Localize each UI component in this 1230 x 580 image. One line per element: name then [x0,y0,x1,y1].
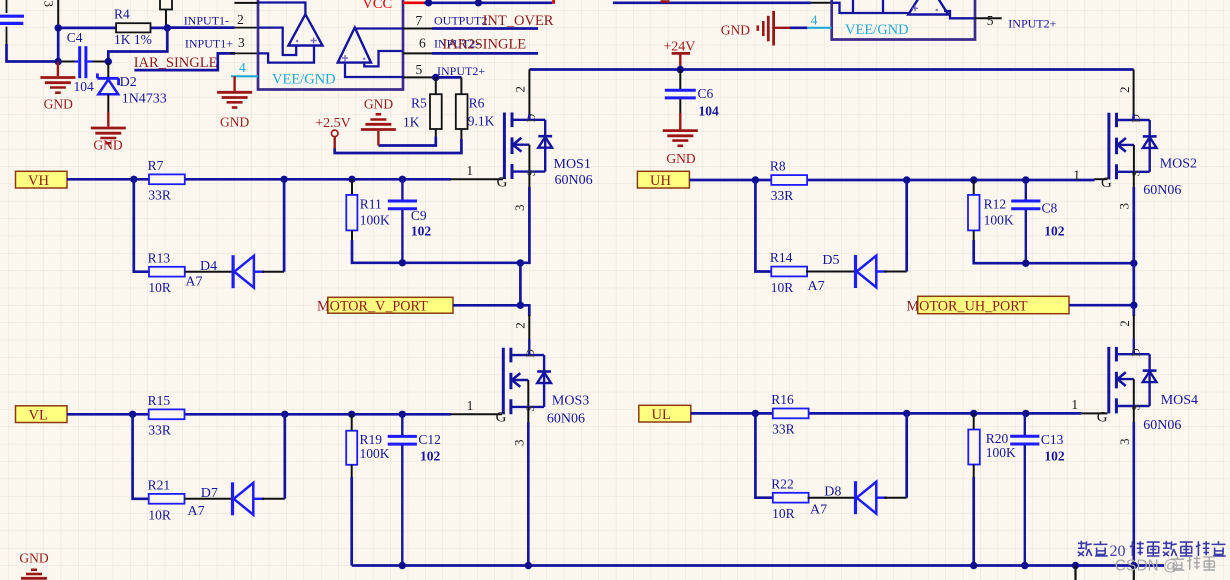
junction mini-rail C8 [1022,260,1029,267]
wire VCC rising stub [552,0,555,4]
svg-text:33R: 33R [771,188,794,203]
svg-text:R5: R5 [411,96,427,111]
svg-text:10R: 10R [148,280,171,295]
wire MOS4 gate pin [1081,412,1107,414]
svg-text:C13: C13 [1041,432,1064,447]
svg-text:R11: R11 [360,197,382,212]
svg-text:1: 1 [467,398,474,413]
junction UH-R12 [970,176,977,183]
wire D8 up to UL row [884,497,907,499]
op-amp U2 component box [832,0,975,40]
junction on VCC wire 2 [475,0,482,7]
wire VCC net to U2 [613,1,811,4]
wire MOS3 gate pin [451,413,502,415]
pin 5 stub [403,76,432,78]
junction UL-D8 [903,410,910,417]
wire R14 to D5 [806,271,856,273]
svg-text:3: 3 [1117,203,1132,210]
svg-text:D4: D4 [200,259,217,274]
svg-text:4: 4 [239,60,246,75]
wire IAR2SINGLE net [432,52,538,55]
svg-text:3: 3 [238,35,245,50]
resistor R11 [351,179,353,195]
svg-text:VH: VH [28,173,49,189]
svg-text:A7: A7 [188,504,205,519]
junction rail C12 [399,562,406,569]
svg-text:+24V: +24V [663,40,695,55]
svg-text:A7: A7 [810,503,827,518]
wire to MOTOR_V_PORT node [519,263,522,306]
svg-text:GND: GND [721,23,750,38]
svg-text:33R: 33R [148,423,171,438]
op-amp U1B triangle [338,28,371,63]
svg-text:R16: R16 [771,392,794,407]
svg-text:3: 3 [512,205,527,212]
pin 6 stub [403,52,432,54]
wire node down to MOS4 drain [1132,305,1135,316]
svg-text:1K: 1K [403,115,420,130]
wire node down to MOS3 drain [520,305,529,316]
svg-text:MOTOR_V_PORT: MOTOR_V_PORT [317,299,428,315]
svg-text:R14: R14 [770,250,793,265]
junction at C4 left [55,58,62,65]
pin 4 wire (cyan) [231,75,258,77]
wire C6 to ground [679,113,681,130]
svg-text:102: 102 [1044,448,1065,463]
svg-text:2: 2 [512,322,527,329]
svg-text:2: 2 [513,86,528,93]
pin 1 stub (top left) [234,2,258,4]
junction VL-C12 [399,411,406,418]
svg-text:R20: R20 [986,431,1009,446]
junction rail MOS3 source [525,562,532,569]
wire MOS2 gate pin [1095,178,1108,180]
svg-text:100K: 100K [360,446,390,461]
wire MOS1 gate pin [451,178,503,180]
ground GND at C4 [57,62,59,77]
capacitor C8 [1025,180,1027,200]
resistor R20 [973,413,975,429]
junction +24V at C6 [677,66,684,73]
svg-text:IAR_SINGLE: IAR_SINGLE [134,55,218,71]
diode D4 [232,255,235,288]
wire U2 pin5 internal [944,11,975,18]
svg-text:GND: GND [19,551,48,566]
resistor R14 [771,267,807,277]
U1A input markers [296,40,298,42]
op-amp U1A triangle [288,14,322,45]
svg-text:VEE/GND: VEE/GND [272,72,336,88]
zener diode D2 [107,63,109,78]
svg-text:INPUT2+: INPUT2+ [437,64,485,78]
resistor R16 [773,409,809,419]
svg-text:GND: GND [220,115,249,130]
junction UL-R22 branch [752,410,759,417]
svg-text:GND: GND [93,138,122,153]
net label UH [637,171,689,188]
svg-text:7: 7 [416,13,423,28]
svg-text:2: 2 [1117,87,1132,94]
junction VH-C9 [399,176,406,183]
wire VH branch down to R13 [134,179,149,271]
svg-text:1: 1 [1071,397,1078,412]
svg-text:INPUT1-: INPUT1- [184,13,229,27]
junction MOTOR_UH node [1130,302,1137,309]
wire MOTOR_V_PORT to node [453,304,520,307]
capacitor C9 [401,179,403,200]
svg-text:33R: 33R [148,188,171,203]
transistor MOS3 [503,348,551,415]
junction UH-R14 branch [752,176,759,183]
svg-text:C4: C4 [67,30,83,45]
junction UL-R20 [970,410,977,417]
svg-text:UH: UH [650,173,671,189]
wire R12 bottom to mini-rail [973,230,975,241]
svg-text:G: G [496,410,507,426]
svg-text:MOS2: MOS2 [1160,157,1197,172]
junction at C4 right / D2 node [105,58,112,65]
svg-text:G: G [497,175,508,191]
junction at R4 left [55,24,62,31]
wire MOS2 source down [1133,172,1135,188]
resistor R13 [149,267,185,277]
resistor R3 (top edge, partially cut) [160,0,172,10]
diode D8 [854,481,857,514]
wire vertical node to C4 node [57,28,60,62]
svg-text:60N06: 60N06 [1143,183,1181,198]
svg-text:D5: D5 [822,253,839,268]
wire U2 internal loop [853,0,883,13]
svg-text:MOTOR_UH_PORT: MOTOR_UH_PORT [907,299,1028,315]
svg-text:GND: GND [44,97,73,112]
svg-text:GND: GND [666,151,695,166]
pin stub U2 VCC [811,2,832,4]
capacitor C4 [78,46,81,78]
svg-text:D2: D2 [120,75,137,90]
transistor MOS1 [504,113,552,180]
ground GND rotated at U2 pin 4 [775,27,790,29]
wire MOS1 drain pin from +24V [528,70,530,116]
wire +24V rail [529,68,1133,71]
junction VL-R19 [348,411,355,418]
port MOTOR_UH_PORT [918,296,1069,313]
wire R6 bottom to +2.5V [460,129,462,140]
wire cap C3 top pin [6,0,8,13]
svg-text:3: 3 [511,440,526,447]
wire pin3 to U1A non-inverting input [258,47,314,63]
svg-text:G: G [1097,410,1108,426]
svg-text:MOS4: MOS4 [1161,393,1198,408]
junction rail stub A [1072,562,1079,569]
wire VH row [67,178,451,181]
resistor R4 [116,23,150,32]
wire R4 right down-left to C4 node [108,28,167,62]
wire top-left vertical from pin 3 above [57,0,59,28]
wire R4 row [58,27,116,30]
resistor R19 [351,414,353,430]
svg-text:R7: R7 [148,158,164,173]
svg-text:C6: C6 [698,86,714,101]
svg-text:C8: C8 [1042,201,1058,216]
ground GND below C6 [663,129,698,132]
wire MOTOR_UH_PORT to node [1069,304,1134,307]
wire C4 row [58,61,78,63]
op-amp U1 component box [258,0,403,90]
svg-text:6: 6 [419,36,426,51]
junction VH-R11 [348,176,355,183]
junction MOTOR_V node [517,302,524,309]
resistor R8 [771,175,807,185]
net label UL [639,405,691,422]
power +2.5V port [331,130,338,137]
wire D4 up to VH row [262,271,284,273]
wire R3 pin down to R4 net [165,10,167,28]
svg-text:100K: 100K [986,445,1016,460]
transistor MOS2 [1109,113,1157,180]
wire IAR_SINGLE to pin 3 [134,53,235,70]
svg-text:CSDN @: CSDN @ [1115,558,1179,575]
svg-text:R8: R8 [770,159,786,174]
svg-text:OUTPUT2: OUTPUT2 [434,13,487,27]
junction VL-D7 [281,411,288,418]
transistor MOS4 [1109,347,1157,414]
wire U2 internal VCC [832,3,909,13]
capacitor C3 (left edge, partially cut) [0,15,24,18]
wire VCC net from pin 8 [403,1,425,4]
svg-text:1N4733: 1N4733 [122,92,167,107]
capacitor C13 [1024,413,1026,435]
svg-text:R19: R19 [360,432,383,447]
svg-text:VEE/GND: VEE/GND [845,22,909,38]
U2 input markers [912,5,918,11]
wire UH row [689,179,1094,182]
svg-text:INT_OVER: INT_OVER [483,13,554,29]
junction on VCC wire [425,0,432,7]
pin 7 stub [403,28,432,30]
wire pin6 to U1B inverting input [364,51,403,66]
svg-text:60N06: 60N06 [547,412,585,427]
svg-text:MOS1: MOS1 [554,157,591,172]
svg-text:R22: R22 [771,476,794,491]
junction UH-C8 [1022,176,1029,183]
svg-text:33R: 33R [772,422,795,437]
junction mini-rail MOS2 source [1130,260,1137,267]
resistor R7 [149,174,185,184]
svg-text:100K: 100K [360,212,390,227]
diode D5 [854,255,857,288]
wire bottom rail [352,564,1164,567]
ground GND below D2 [107,112,109,127]
wire to MOTOR_UH node [1132,263,1135,305]
svg-text:60N06: 60N06 [555,173,593,188]
svg-text:10R: 10R [148,507,171,522]
wire stub below rail B [1133,566,1135,580]
resistor R21 [149,494,185,504]
svg-text:R21: R21 [148,477,171,492]
svg-text:R12: R12 [984,197,1007,212]
wire UL row [691,412,1082,415]
junction VL-R21 branch [129,411,136,418]
svg-text:3: 3 [42,1,57,8]
wire MOS1 source down [528,172,530,188]
svg-text:D7: D7 [201,486,218,501]
junction mini-rail C9 [399,259,406,266]
svg-text:60N06: 60N06 [1143,418,1181,433]
power +24V port [672,52,691,55]
junction mini-rail MOS1 source [517,259,524,266]
svg-text:INPUT2+: INPUT2+ [1008,17,1056,31]
U1B input markers [342,55,348,61]
wire INPUT1- net to pin 2 [167,26,234,29]
junction VH-D4 [280,176,287,183]
svg-text:100K: 100K [984,212,1014,227]
svg-text:104: 104 [699,104,720,119]
svg-text:C9: C9 [411,208,427,223]
capacitor C6 [679,70,681,90]
resistor R15 [149,409,185,419]
svg-text:A7: A7 [185,274,202,289]
svg-text:D8: D8 [824,485,841,500]
wire pin7 to U1B output [355,28,403,29]
wire R11 bottom to mini-rail [351,230,353,241]
resistor R5 [430,94,442,129]
svg-text:MOS3: MOS3 [552,394,589,409]
wire MOS4 source down to rail [1133,406,1135,423]
wire VL branch down to R21 [133,414,149,499]
ground GND at pin 4 [233,76,235,91]
wire R19 bottom to ground rail [351,465,353,478]
svg-text:3: 3 [1117,439,1132,446]
wire R20 bottom to ground rail [973,465,975,479]
svg-text:102: 102 [1044,224,1065,239]
svg-text:VCC: VCC [362,0,392,12]
svg-text:R15: R15 [148,393,171,408]
net label VL [16,406,68,423]
op-amp U2 triangle (cut) [908,0,948,15]
pin 5 stub U2 [975,17,1002,19]
svg-text:5: 5 [987,13,994,28]
svg-text:R6: R6 [469,96,485,111]
resistor R12 [973,180,975,195]
pin 4 wire U2 (cyan) [806,27,832,29]
svg-text:9.1K: 9.1K [468,114,495,129]
svg-text:1K 1%: 1K 1% [114,32,152,47]
junction VH-R13 branch [130,176,137,183]
svg-text:10R: 10R [772,506,795,521]
junction rail C13 [1021,562,1028,569]
wire UL branch down to R22 [755,413,772,497]
wire INT_OVER net [432,27,538,30]
svg-text:UL: UL [652,407,671,423]
net label VH [16,171,68,188]
wire MOS2 drain pin from +24V [1133,70,1135,116]
svg-text:VL: VL [29,407,48,423]
resistor R22 [773,493,809,503]
wire D2 to ground [107,94,109,112]
svg-text:102: 102 [420,448,441,463]
svg-text:INPUT1+: INPUT1+ [185,36,233,50]
wire D5 up to UH row [884,271,907,273]
svg-text:G: G [1101,175,1112,191]
svg-text:10R: 10R [771,280,794,295]
wire INPUT2+ to R5 R6 [432,76,461,79]
wire R5 bottom to ground [435,129,437,138]
svg-text:A7: A7 [808,279,825,294]
svg-text:5: 5 [416,62,423,77]
wire U1A output to top [258,3,305,15]
junction rail R20 [970,562,977,569]
junction UL-C13 [1022,410,1029,417]
wire MOS3 source down to rail [527,407,529,423]
svg-text:R4: R4 [114,7,130,22]
wire R13 to D4 [185,271,233,273]
svg-text:1: 1 [466,163,473,178]
wire pin5 to U1B non-inverting input [345,64,403,77]
wire R21 to D7 [185,498,233,500]
svg-text:2: 2 [237,12,244,27]
annotation Chinese text [1078,541,1092,556]
svg-text:+2.5V: +2.5V [315,116,351,131]
svg-text:1: 1 [1073,167,1080,182]
diode D7 [231,482,234,515]
wire UH branch down to R14 [755,180,771,272]
svg-text:2: 2 [1117,320,1132,327]
svg-text:R13: R13 [148,250,171,265]
junction UH-D5 [903,176,910,183]
port MOTOR_V_PORT [328,297,453,313]
wire VL row [67,413,451,416]
resistor R6 [456,94,468,129]
svg-text:C12: C12 [418,432,441,447]
svg-text:4: 4 [811,13,818,28]
junction rail MOS4 source [1130,562,1137,569]
svg-text:104: 104 [74,79,95,94]
wire pin2 to U1A inverting input [258,28,296,55]
junction at R4 right / INPUT1- node [164,24,171,31]
wire D7 up to VL row [262,498,285,500]
capacitor C12 [401,414,403,435]
svg-text:102: 102 [411,224,432,239]
svg-text:IAR2SINGLE: IAR2SINGLE [442,37,526,53]
wire R22 to D8 [808,497,856,499]
ground GND near +2.5V [377,131,379,146]
wire stub below rail A [1074,566,1076,580]
wire cap C3 bottom pin to node [6,27,8,45]
svg-text:GND: GND [364,97,393,112]
